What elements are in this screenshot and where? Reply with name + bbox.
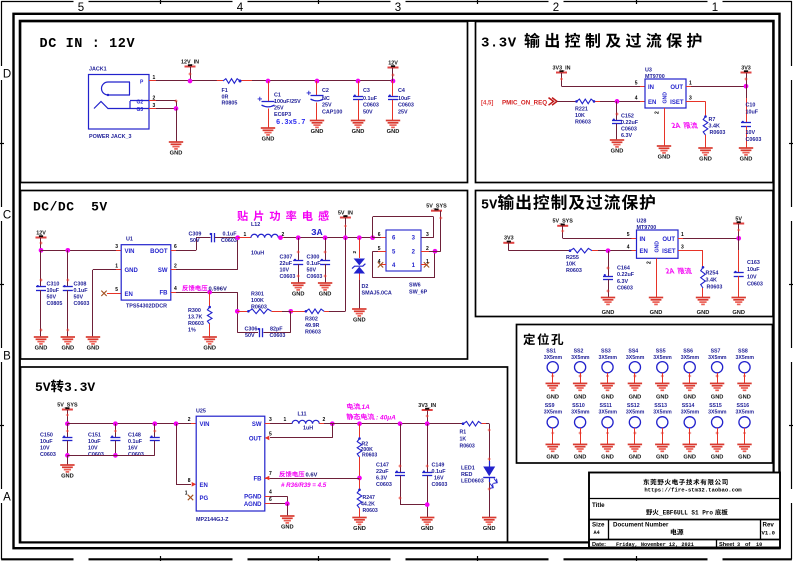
svg-text:R0603: R0603 bbox=[363, 508, 378, 514]
svg-text:25V: 25V bbox=[274, 106, 284, 112]
svg-text:0.1uF: 0.1uF bbox=[363, 96, 378, 102]
svg-text:5: 5 bbox=[627, 232, 630, 238]
ground C2 bbox=[310, 120, 324, 122]
junction SW6 pin2 bbox=[433, 249, 438, 254]
svg-text:GND: GND bbox=[658, 155, 671, 161]
capacitor C310 10uF 50V C0805 bbox=[40, 250, 42, 287]
svg-text:10uH: 10uH bbox=[251, 251, 264, 257]
svg-text:NC: NC bbox=[322, 96, 330, 102]
capacitor C3 0.1uF C0603 50V bbox=[356, 79, 361, 84]
svg-text:GND: GND bbox=[574, 394, 587, 400]
ground R300 bbox=[203, 336, 217, 338]
wire SW to L12 bbox=[171, 269, 176, 271]
svg-text:3: 3 bbox=[395, 2, 401, 14]
svg-text:SS15: SS15 bbox=[709, 403, 722, 409]
resistor R247 44.2K R0603 bbox=[359, 478, 361, 489]
svg-text:C308: C308 bbox=[74, 282, 87, 288]
svg-text:10uF: 10uF bbox=[47, 288, 60, 294]
svg-text:SW: SW bbox=[252, 422, 262, 428]
ground C307 bbox=[291, 282, 305, 284]
junction R301 right bbox=[288, 309, 293, 314]
svg-text:PG: PG bbox=[200, 496, 209, 502]
svg-text:GND: GND bbox=[483, 526, 496, 532]
wire U3 OUT to 3V3 bbox=[686, 86, 691, 88]
wire cap ground rail bbox=[67, 455, 154, 457]
svg-text:10uF: 10uF bbox=[747, 267, 760, 273]
wire U1 FB node bbox=[171, 292, 176, 294]
svg-text:10K: 10K bbox=[575, 113, 585, 119]
svg-text:6.3V: 6.3V bbox=[376, 476, 387, 482]
svg-text:10uF: 10uF bbox=[40, 439, 53, 445]
annotation feedback voltage 0.6V bbox=[279, 471, 285, 477]
no-connect X SW6 pin1 bbox=[421, 264, 426, 266]
svg-text:49.9R: 49.9R bbox=[305, 323, 319, 329]
svg-text:FB: FB bbox=[254, 476, 263, 482]
wire SW6 pin5 loop to 5V_SYS net bbox=[378, 251, 386, 253]
svg-text:3X5mm: 3X5mm bbox=[544, 410, 563, 416]
svg-text:C151: C151 bbox=[88, 433, 101, 439]
svg-text:C300: C300 bbox=[307, 255, 320, 261]
svg-text:R7: R7 bbox=[709, 117, 716, 123]
svg-text:0.1uF: 0.1uF bbox=[307, 261, 322, 267]
svg-text:SS9: SS9 bbox=[545, 403, 555, 409]
svg-text:3: 3 bbox=[426, 232, 429, 238]
svg-text:GND: GND bbox=[292, 292, 305, 298]
svg-text:R255: R255 bbox=[566, 255, 579, 261]
svg-text:VIN: VIN bbox=[200, 422, 210, 428]
capacitor C149 0.1uF 16V C0603 bbox=[425, 421, 430, 426]
document number bbox=[671, 529, 677, 535]
svg-text:EN: EN bbox=[648, 100, 656, 106]
svg-text:50V: 50V bbox=[47, 295, 57, 301]
wire BOOT to C309 bbox=[171, 250, 176, 252]
svg-text:3A: 3A bbox=[311, 227, 323, 238]
svg-text:3X5mm: 3X5mm bbox=[681, 410, 700, 416]
svg-text:SS3: SS3 bbox=[601, 349, 611, 355]
ground R7 bbox=[698, 147, 712, 149]
svg-text:EN: EN bbox=[200, 483, 208, 489]
svg-text:L12: L12 bbox=[251, 222, 260, 228]
wire F1 to caps bus bbox=[252, 80, 393, 82]
company name bbox=[643, 479, 649, 485]
wire SW6 pin2 stub bbox=[421, 251, 429, 253]
annotation quiescent current 40uA bbox=[346, 413, 353, 420]
ground C164 bbox=[601, 297, 615, 299]
svg-text:4: 4 bbox=[627, 245, 630, 251]
svg-text:5V: 5V bbox=[35, 380, 51, 395]
svg-text:F1: F1 bbox=[222, 88, 228, 94]
capacitor C164 0.22uF 6.3V C0603 bbox=[608, 251, 610, 276]
svg-text:IN: IN bbox=[648, 85, 654, 91]
svg-text:1: 1 bbox=[185, 491, 188, 497]
svg-text:3X5mm: 3X5mm bbox=[571, 410, 590, 416]
wire SW to L11 bbox=[265, 423, 270, 425]
svg-text:Sheet: Sheet bbox=[719, 542, 734, 548]
svg-text:EN: EN bbox=[640, 249, 648, 255]
svg-text:GND: GND bbox=[602, 310, 615, 316]
svg-text:EN: EN bbox=[125, 292, 133, 298]
svg-text:3.3V: 3.3V bbox=[64, 380, 95, 395]
junction SW node bbox=[235, 235, 240, 240]
svg-text:3: 3 bbox=[269, 417, 272, 423]
svg-text:1: 1 bbox=[712, 2, 718, 14]
svg-text:GND: GND bbox=[546, 394, 559, 400]
svg-text:U25: U25 bbox=[196, 409, 206, 415]
junction 5V bus to switch loop bbox=[370, 235, 375, 240]
svg-text:SW: SW bbox=[158, 268, 168, 274]
svg-text:4: 4 bbox=[635, 96, 638, 102]
svg-text:6.3x5.7: 6.3x5.7 bbox=[276, 119, 305, 127]
svg-text:5: 5 bbox=[635, 81, 638, 87]
svg-text:C310: C310 bbox=[47, 282, 60, 288]
svg-text:82pF: 82pF bbox=[270, 327, 283, 333]
svg-text:22uF: 22uF bbox=[376, 469, 389, 475]
junction C152 bbox=[615, 99, 620, 104]
svg-text:1uH: 1uH bbox=[303, 426, 313, 432]
svg-text:C4: C4 bbox=[398, 88, 405, 94]
svg-text:R0603: R0603 bbox=[575, 120, 591, 126]
svg-text:C152: C152 bbox=[621, 114, 634, 120]
ground C163 bbox=[732, 297, 746, 299]
svg-text:2: 2 bbox=[647, 261, 653, 264]
resistor R221 10K R0603 bbox=[577, 99, 595, 104]
svg-text:GND: GND bbox=[699, 157, 712, 163]
svg-text:R301: R301 bbox=[251, 292, 264, 298]
svg-text:5: 5 bbox=[378, 246, 381, 252]
svg-text:GND: GND bbox=[203, 346, 216, 352]
svg-text:GND: GND bbox=[738, 394, 751, 400]
junction 12V_IN bbox=[188, 79, 193, 84]
wire 5V_SYS to U28 IN bbox=[563, 238, 632, 240]
svg-text:V1.0: V1.0 bbox=[762, 530, 776, 537]
svg-text:SMAJ5.0CA: SMAJ5.0CA bbox=[362, 291, 392, 297]
svg-text:3X5mm: 3X5mm bbox=[653, 355, 672, 361]
op-amp U3 MT9700 current limit switch bbox=[645, 79, 686, 108]
svg-text:LED1: LED1 bbox=[461, 466, 475, 472]
svg-text:C309: C309 bbox=[189, 232, 202, 238]
svg-text:0.596V: 0.596V bbox=[209, 286, 228, 292]
svg-text:LED0603: LED0603 bbox=[461, 479, 484, 485]
wire jack G2 G3 to ground bbox=[149, 100, 156, 102]
capacitor C300 0.1uF 50V C0603 bbox=[323, 235, 328, 240]
svg-text:3.4K: 3.4K bbox=[709, 124, 720, 130]
svg-text:R0603: R0603 bbox=[710, 130, 726, 136]
svg-text:GND: GND bbox=[546, 455, 559, 461]
annotation chip power inductor bbox=[237, 211, 248, 222]
svg-text:C0603: C0603 bbox=[747, 282, 763, 288]
annotation feedback voltage 0.596V bbox=[182, 285, 188, 291]
svg-text:C164: C164 bbox=[617, 266, 630, 272]
svg-text:A: A bbox=[3, 492, 11, 504]
svg-text:GND: GND bbox=[683, 394, 696, 400]
ground C1 bbox=[261, 127, 275, 129]
svg-text:DC/DC 5V: DC/DC 5V bbox=[33, 200, 108, 215]
svg-text:3X5mm: 3X5mm bbox=[681, 355, 700, 361]
svg-text:3: 3 bbox=[115, 244, 118, 250]
annotation 2A current limit bbox=[671, 123, 676, 128]
svg-text:SS4: SS4 bbox=[628, 349, 638, 355]
svg-text:C1: C1 bbox=[274, 93, 281, 99]
wire input rail to U25 VIN bbox=[67, 423, 191, 425]
svg-text:SS1: SS1 bbox=[546, 349, 556, 355]
svg-text:3X5mm: 3X5mm bbox=[626, 355, 645, 361]
svg-text:GND: GND bbox=[711, 394, 724, 400]
resistor R302 49.9R R0603 bbox=[291, 311, 306, 313]
svg-text:R300: R300 bbox=[188, 308, 201, 314]
no-connect X SW6 pin4 bbox=[381, 264, 386, 266]
svg-text:GND: GND bbox=[574, 455, 587, 461]
svg-text:C10: C10 bbox=[746, 103, 756, 109]
wire FB divider to R301 bbox=[237, 292, 239, 332]
svg-text:C163: C163 bbox=[747, 260, 760, 266]
svg-text:D2: D2 bbox=[362, 284, 369, 290]
svg-text:C0603: C0603 bbox=[363, 103, 379, 109]
wire PMIC to R221 bbox=[557, 101, 577, 103]
wire PGND AGND to ground bbox=[265, 496, 270, 498]
svg-text:G2: G2 bbox=[137, 100, 144, 106]
svg-text:2: 2 bbox=[352, 251, 357, 254]
capacitor C151 10uF 10V C0603 bbox=[113, 421, 118, 426]
ground input caps bbox=[60, 464, 74, 466]
svg-text:3: 3 bbox=[689, 96, 692, 102]
title block dividers bbox=[589, 498, 780, 500]
svg-text:5: 5 bbox=[269, 432, 272, 438]
svg-text:GND: GND bbox=[421, 526, 434, 532]
wire SW6 pin6 stub bbox=[381, 237, 386, 239]
svg-text:25V: 25V bbox=[322, 103, 332, 109]
wire R255 to U28 EN bbox=[598, 250, 632, 252]
svg-text:MT9700: MT9700 bbox=[637, 225, 657, 231]
svg-text:R302: R302 bbox=[305, 317, 318, 323]
junction 12V C310 bbox=[39, 248, 44, 253]
svg-text:22uF: 22uF bbox=[280, 261, 293, 267]
wire 3V3 to R255 bbox=[509, 250, 570, 252]
svg-text:3X5mm: 3X5mm bbox=[708, 410, 727, 416]
svg-text:C: C bbox=[3, 210, 11, 222]
svg-text:FB: FB bbox=[160, 291, 169, 297]
svg-text:G3: G3 bbox=[137, 107, 144, 113]
svg-text:R0603: R0603 bbox=[566, 268, 582, 274]
svg-text:C0603: C0603 bbox=[40, 452, 56, 458]
svg-text:GND: GND bbox=[601, 394, 614, 400]
svg-text:SS14: SS14 bbox=[682, 403, 695, 409]
svg-text:of: of bbox=[745, 542, 750, 548]
svg-text:U3: U3 bbox=[645, 68, 652, 74]
svg-text:3X5mm: 3X5mm bbox=[599, 355, 618, 361]
capacitor C150 10uF 10V C0603 bbox=[67, 424, 69, 438]
junction L11 output / OUT loop bbox=[330, 421, 335, 426]
svg-text:C0603: C0603 bbox=[746, 137, 762, 143]
svg-text:0.1uF: 0.1uF bbox=[432, 469, 447, 475]
svg-text:SW6: SW6 bbox=[409, 283, 421, 289]
svg-text:6.3V: 6.3V bbox=[617, 279, 628, 285]
op-amp U28 MT9700 current limit switch bbox=[637, 230, 679, 258]
svg-text:3X5mm: 3X5mm bbox=[626, 410, 645, 416]
junction R301 left bbox=[235, 309, 240, 314]
svg-text:R0603: R0603 bbox=[707, 285, 723, 291]
svg-text:R254: R254 bbox=[706, 271, 719, 277]
svg-text:0.6V: 0.6V bbox=[306, 473, 318, 479]
svg-text:4: 4 bbox=[237, 2, 244, 14]
svg-text:3X5mm: 3X5mm bbox=[599, 410, 618, 416]
svg-text:U28: U28 bbox=[637, 219, 647, 225]
TVS diode D2 SMAJ5.0CA bbox=[357, 235, 362, 240]
capacitor C148 0.1uF 16V C0603 bbox=[152, 421, 157, 426]
svg-text:B: B bbox=[3, 351, 11, 363]
buck regulator U25 MP2144GJ-Z bbox=[196, 416, 265, 511]
svg-text:GND: GND bbox=[170, 151, 183, 157]
svg-text:6: 6 bbox=[174, 244, 177, 250]
svg-text:1: 1 bbox=[681, 232, 684, 238]
wire 12V to U1 VIN bbox=[41, 250, 116, 252]
svg-text:L11: L11 bbox=[298, 412, 307, 418]
svg-text:GND: GND bbox=[740, 157, 753, 163]
svg-text:ISET: ISET bbox=[662, 249, 676, 255]
svg-text:0.1uF: 0.1uF bbox=[74, 288, 89, 294]
svg-text:R0603: R0603 bbox=[251, 305, 267, 311]
svg-text:VIN: VIN bbox=[125, 249, 135, 255]
ground U28 bbox=[649, 297, 663, 299]
resistor R254 3.4K R0603 bbox=[702, 266, 705, 269]
junction AGND bbox=[285, 501, 290, 506]
junction 5V_SYS rail bbox=[65, 421, 70, 426]
ground C3 bbox=[351, 120, 365, 122]
svg-text:ISET: ISET bbox=[670, 100, 684, 106]
svg-text:PMIC_ON_REQ: PMIC_ON_REQ bbox=[502, 100, 547, 107]
svg-text:16V: 16V bbox=[128, 446, 138, 452]
svg-text:C150: C150 bbox=[40, 433, 53, 439]
svg-text:GND: GND bbox=[611, 149, 624, 155]
svg-text:R0805: R0805 bbox=[222, 101, 238, 107]
ground jack bbox=[169, 141, 183, 143]
svg-text:0.22uF: 0.22uF bbox=[617, 272, 635, 278]
svg-text:https://fire-stm32.taobao.com: https://fire-stm32.taobao.com bbox=[644, 487, 742, 494]
capacitor C306 82pF 50V C0603 bbox=[237, 332, 258, 334]
buck regulator U1 TPS54302DDCR bbox=[121, 245, 171, 300]
block box 5V to 3.3V bbox=[21, 367, 508, 543]
capacitor C308 0.1uF 50V C0603 bbox=[65, 248, 70, 253]
svg-text:GND: GND bbox=[353, 318, 366, 324]
svg-text:Document Number: Document Number bbox=[613, 522, 669, 529]
svg-text:13.7K: 13.7K bbox=[188, 315, 202, 321]
svg-text:SS13: SS13 bbox=[654, 403, 667, 409]
svg-text:R0603: R0603 bbox=[305, 330, 321, 336]
block box DC IN 12V bbox=[21, 22, 468, 183]
svg-text:C0603: C0603 bbox=[307, 274, 323, 280]
junction OUT node bbox=[744, 84, 749, 89]
svg-text:OUT: OUT bbox=[662, 237, 675, 243]
svg-text:RED: RED bbox=[461, 472, 472, 478]
wire U28 OUT to 5V bbox=[678, 238, 683, 240]
ground U3 bbox=[657, 145, 671, 147]
connector JACK1 POWER JACK_3 bbox=[89, 75, 150, 130]
svg-text:50V: 50V bbox=[190, 238, 200, 244]
ground C310 bbox=[34, 336, 48, 338]
svg-text:50V: 50V bbox=[363, 110, 373, 116]
svg-text:C0603: C0603 bbox=[376, 482, 392, 488]
svg-text:OUT: OUT bbox=[249, 436, 262, 442]
svg-text:SS7: SS7 bbox=[711, 349, 721, 355]
svg-text:DC IN : 12V: DC IN : 12V bbox=[40, 37, 136, 52]
svg-text:4: 4 bbox=[174, 286, 177, 292]
svg-text:EC6P3: EC6P3 bbox=[274, 112, 291, 118]
switch SW6 SW_6P bbox=[386, 230, 421, 271]
svg-text:50V: 50V bbox=[74, 295, 84, 301]
svg-text:2: 2 bbox=[655, 111, 661, 114]
ground C147 C149 bbox=[420, 517, 434, 519]
ground U25 bbox=[280, 515, 294, 517]
junction cap ground join bbox=[425, 502, 430, 507]
ground C152 bbox=[610, 139, 624, 141]
wire U28 ISET to R254 bbox=[678, 250, 703, 252]
wire R1 to LED1 bbox=[486, 423, 489, 425]
svg-text:C0603: C0603 bbox=[621, 127, 637, 133]
svg-text:R0603: R0603 bbox=[188, 321, 204, 327]
wire U1 GND pin to ground bbox=[116, 269, 121, 271]
block box 5V output control bbox=[476, 191, 774, 317]
svg-text:0.1uF: 0.1uF bbox=[223, 232, 238, 238]
svg-text:GND: GND bbox=[125, 268, 139, 274]
title mounting holes bbox=[523, 333, 535, 345]
svg-text:GND: GND bbox=[281, 525, 294, 531]
svg-text:44.2K: 44.2K bbox=[361, 502, 375, 508]
svg-text:GND: GND bbox=[387, 129, 400, 135]
svg-text:JACK1: JACK1 bbox=[89, 67, 107, 73]
junction 5V_IN / feedback riser bbox=[343, 235, 348, 240]
svg-text:3X5mm: 3X5mm bbox=[571, 355, 590, 361]
svg-text:SS11: SS11 bbox=[600, 403, 613, 409]
svg-text:Title: Title bbox=[592, 502, 605, 509]
wire 5V bus bbox=[284, 237, 381, 239]
svg-text:C0603: C0603 bbox=[221, 238, 237, 244]
resistor R7 3.4K R0603 bbox=[704, 115, 707, 118]
junction FB node bbox=[357, 476, 362, 481]
svg-text:GND: GND bbox=[353, 526, 366, 532]
ground U1 pin1 bbox=[86, 336, 100, 338]
svg-text:3: 3 bbox=[681, 245, 684, 251]
svg-text:C3: C3 bbox=[363, 88, 370, 94]
svg-text:3X5mm: 3X5mm bbox=[708, 355, 727, 361]
ground D2 bbox=[352, 308, 366, 310]
svg-text:10uF: 10uF bbox=[88, 439, 101, 445]
capacitor C163 10uF 10V C0603 bbox=[738, 238, 740, 250]
svg-text:1: 1 bbox=[115, 263, 118, 269]
svg-text:2: 2 bbox=[188, 417, 191, 423]
svg-text:C147: C147 bbox=[376, 463, 389, 469]
svg-text:C307: C307 bbox=[280, 255, 293, 261]
svg-text:GND: GND bbox=[656, 455, 669, 461]
svg-text:1%: 1% bbox=[188, 328, 196, 334]
capacitor C147 22uF 6.3V C0603 bbox=[398, 421, 403, 426]
svg-text:SS2: SS2 bbox=[574, 349, 584, 355]
outer thin border with zone label gaps bbox=[1, 1, 73, 3]
svg-text:Friday, November 12, 2021: Friday, November 12, 2021 bbox=[616, 542, 694, 548]
svg-text:GND: GND bbox=[262, 137, 275, 143]
wire jack pin1 to 12V bus bbox=[149, 80, 156, 82]
svg-text:10V: 10V bbox=[746, 130, 756, 136]
junction C164 bbox=[606, 248, 611, 253]
svg-text:C0603: C0603 bbox=[432, 482, 448, 488]
svg-text:C2: C2 bbox=[322, 88, 329, 94]
wire 3.3V output rail bbox=[332, 423, 463, 425]
svg-text:100uF/25V: 100uF/25V bbox=[274, 99, 301, 105]
svg-text:16V: 16V bbox=[434, 476, 444, 482]
svg-text:3X5mm: 3X5mm bbox=[653, 410, 672, 416]
svg-text:R221: R221 bbox=[575, 107, 588, 113]
wire R302 to 5V bus riser bbox=[329, 311, 345, 313]
block box 3.3V output control bbox=[476, 22, 774, 183]
svg-text:SS6: SS6 bbox=[683, 349, 693, 355]
